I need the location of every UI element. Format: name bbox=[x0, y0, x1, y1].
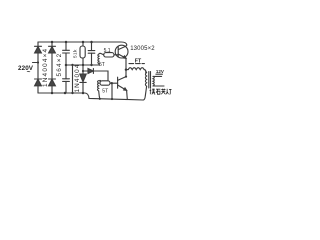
svg-text:564×2: 564×2 bbox=[56, 53, 63, 77]
svg-text:13005×2: 13005×2 bbox=[130, 46, 155, 52]
svg-text:5T: 5T bbox=[99, 62, 105, 68]
svg-text:~: ~ bbox=[27, 69, 31, 76]
svg-text:12V: 12V bbox=[156, 69, 164, 74]
svg-text:1N4004: 1N4004 bbox=[74, 64, 81, 93]
svg-text:5.1: 5.1 bbox=[104, 48, 111, 54]
svg-text:5T: 5T bbox=[102, 88, 108, 94]
svg-text:1N4004×4: 1N4004×4 bbox=[42, 48, 49, 87]
svg-text:51k: 51k bbox=[72, 49, 77, 58]
svg-text:FT: FT bbox=[135, 59, 142, 65]
